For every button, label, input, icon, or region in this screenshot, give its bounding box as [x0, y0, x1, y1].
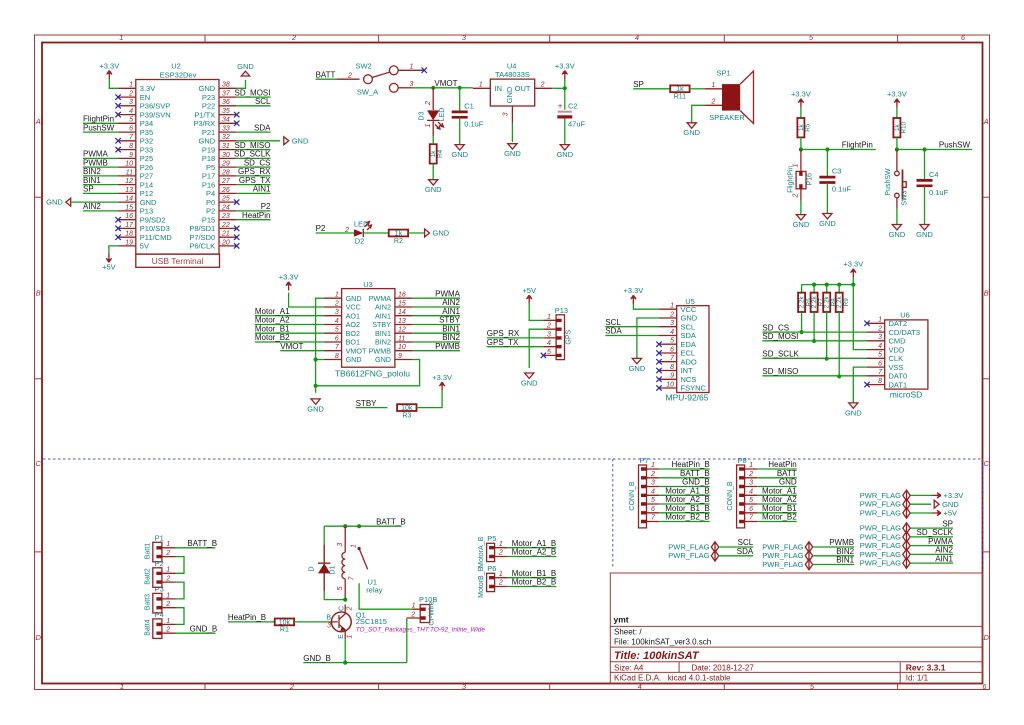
svg-text:5: 5: [749, 497, 753, 504]
resistor R7 2.2k: [811, 293, 825, 312]
capacitor C1: [452, 101, 484, 128]
wire net SD_MOSI: [237, 96, 271, 98]
wire resistor to net: [801, 312, 803, 332]
svg-text:+3.3V: +3.3V: [623, 286, 643, 295]
wire battery link: [176, 582, 185, 599]
svg-text:BATT_B: BATT_B: [680, 469, 710, 478]
svg-text:2: 2: [425, 101, 432, 106]
svg-text:AIN2: AIN2: [83, 202, 101, 211]
svg-text:P14: P14: [140, 180, 153, 189]
wire C2 to GND: [564, 119, 566, 145]
junction rail: [825, 283, 829, 287]
svg-text:Motor_B1_B: Motor_B1_B: [665, 504, 709, 513]
svg-text:SCL: SCL: [605, 318, 621, 327]
wire U3 pin8 gnd: [316, 359, 324, 361]
svg-text:D: D: [35, 633, 41, 642]
svg-text:BIN1: BIN1: [836, 556, 854, 565]
svg-text:0.1uF: 0.1uF: [832, 185, 852, 194]
PWR_FLAG PWMA: [860, 540, 910, 551]
svg-text:C: C: [35, 459, 41, 468]
svg-text:38: 38: [222, 82, 230, 89]
microSD U6: [867, 311, 928, 400]
connector P3 Batt3: [145, 585, 176, 613]
svg-text:22: 22: [221, 222, 230, 229]
svg-text:SD_MOSI: SD_MOSI: [234, 88, 270, 97]
svg-text:P25: P25: [140, 154, 153, 163]
svg-text:2: 2: [347, 606, 354, 611]
svg-text:P3: P3: [155, 585, 164, 594]
svg-text:1: 1: [166, 618, 170, 625]
connector P13 GPS: [543, 306, 572, 360]
wire net HeatPin: [757, 468, 796, 470]
svg-text:P33: P33: [140, 145, 153, 154]
svg-text:4: 4: [651, 489, 655, 496]
wire net SD_MISO: [762, 375, 867, 377]
svg-text:P16: P16: [806, 173, 813, 186]
svg-text:BATT_B: BATT_B: [187, 539, 217, 548]
svg-text:1: 1: [119, 33, 123, 42]
wire PushSW net: [897, 149, 972, 151]
junction pullup tap: [825, 357, 829, 361]
no-connect U2 right pin: [234, 112, 239, 117]
wire SP to R11: [633, 88, 670, 90]
svg-text:SD_SCLK: SD_SCLK: [917, 528, 954, 537]
svg-text:+3.3V: +3.3V: [791, 90, 811, 99]
svg-text:Motor_B1_B: Motor_B1_B: [512, 569, 556, 578]
svg-text:4: 4: [129, 108, 133, 115]
svg-text:HeatPin_B: HeatPin_B: [671, 460, 709, 469]
svg-text:BATT_B: BATT_B: [376, 517, 406, 526]
svg-text:0.1uF: 0.1uF: [464, 119, 484, 128]
power +5V: [932, 509, 957, 518]
svg-text:PWR_FLAG: PWR_FLAG: [860, 508, 901, 517]
svg-text:CONN_B: CONN_B: [727, 481, 734, 511]
wire net GPS_RX: [237, 175, 271, 177]
wire net HeatPin_B: [228, 621, 275, 623]
svg-text:15: 15: [125, 204, 133, 211]
svg-text:B: B: [36, 289, 41, 298]
svg-text:Id: 1/1: Id: 1/1: [906, 674, 929, 683]
svg-text:PWR_FLAG: PWR_FLAG: [762, 551, 803, 560]
svg-text:36: 36: [222, 99, 230, 106]
svg-text:P32: P32: [140, 137, 153, 146]
svg-text:Motor_B2: Motor_B2: [255, 333, 290, 342]
svg-text:PWR_FLAG: PWR_FLAG: [860, 559, 901, 568]
svg-text:NCS: NCS: [681, 375, 697, 384]
wire net GPS_TX: [487, 346, 544, 348]
svg-text:8: 8: [335, 353, 339, 360]
svg-text:2: 2: [748, 471, 753, 478]
svg-text:GPS_RX: GPS_RX: [238, 167, 271, 176]
svg-text:HeatPin: HeatPin: [768, 460, 796, 469]
svg-text:1: 1: [425, 123, 432, 127]
svg-text:R4: R4: [437, 149, 444, 158]
svg-text:Date: 2018-12-27: Date: 2018-12-27: [692, 663, 755, 672]
ground U2 pin38: [237, 62, 254, 76]
resistor R2: [389, 230, 408, 245]
wire net Motor_A1_B: [659, 494, 709, 496]
junction PushSW/SW3: [895, 147, 899, 151]
svg-text:Motor_A2_B: Motor_A2_B: [512, 548, 556, 557]
svg-text:10k: 10k: [279, 619, 291, 626]
svg-text:PushSW: PushSW: [83, 123, 115, 132]
wire U6 vss: [853, 367, 867, 402]
wire net Motor_B1: [255, 332, 324, 334]
wire D3 to R4 to GND: [432, 136, 434, 180]
svg-text:2: 2: [710, 99, 715, 106]
no-connect U2 pin 18: [115, 235, 120, 240]
connector P8 main bus: [727, 456, 757, 528]
no-connect U2 right pin: [234, 199, 239, 204]
svg-text:GPS_RX: GPS_RX: [487, 329, 520, 338]
svg-text:1: 1: [749, 462, 753, 469]
svg-text:32: 32: [222, 134, 230, 141]
svg-text:D: D: [983, 633, 989, 642]
wire net Motor_A1_B: [507, 547, 556, 549]
wire to C4: [924, 150, 926, 181]
wire resistor to net: [826, 312, 828, 359]
svg-text:C: C: [983, 459, 989, 468]
svg-text:GND: GND: [433, 229, 450, 238]
junction pullup tap: [812, 339, 816, 343]
power +3.3V: [887, 90, 907, 108]
svg-text:P19: P19: [202, 145, 215, 154]
wire PWR_FLAG SCL: [719, 546, 754, 548]
svg-text:P9/SD2: P9/SD2: [140, 215, 166, 224]
svg-text:SP: SP: [942, 519, 953, 528]
no-connect U2 pin 7: [115, 138, 120, 143]
wire D1 branch: [324, 526, 345, 599]
wire PWR_FLAG SP: [910, 527, 953, 529]
svg-text:PWMA: PWMA: [83, 150, 109, 159]
ground U4: [504, 144, 521, 158]
svg-text:GND: GND: [505, 86, 514, 103]
svg-text:Motor_B1: Motor_B1: [255, 324, 290, 333]
svg-text:BO1: BO1: [346, 338, 360, 347]
wire U5 gnd: [637, 318, 659, 358]
svg-text:P1: P1: [155, 534, 164, 543]
svg-text:3: 3: [503, 112, 510, 116]
resistor R11: [670, 85, 689, 100]
svg-text:14: 14: [398, 309, 406, 316]
svg-text:HeatPin: HeatPin: [242, 211, 270, 220]
svg-text:6: 6: [651, 506, 655, 513]
svg-text:1: 1: [129, 82, 133, 89]
svg-text:BIN1: BIN1: [83, 176, 101, 185]
svg-text:1: 1: [412, 603, 416, 610]
capacitor C3: [819, 167, 851, 194]
wire net BIN2: [83, 175, 118, 177]
wire net SD_SCLK: [762, 357, 867, 359]
svg-text:18: 18: [125, 231, 133, 238]
PWR_FLAG SP: [860, 523, 910, 534]
svg-text:3: 3: [670, 320, 674, 327]
svg-text:TA48033S: TA48033S: [495, 70, 530, 79]
svg-text:CD/DAT3: CD/DAT3: [889, 328, 921, 337]
wire net Motor_B1_B: [659, 512, 709, 514]
wire net Motor_A2: [757, 503, 796, 505]
svg-text:17: 17: [125, 222, 134, 229]
wire net SDA: [605, 335, 659, 337]
svg-text:GND: GND: [942, 500, 959, 509]
wire +5V to P13 pin1: [529, 304, 555, 321]
svg-text:EDA: EDA: [681, 340, 696, 349]
switch SW2: [337, 62, 425, 97]
svg-text:Motor_A1_B: Motor_A1_B: [665, 487, 709, 496]
ground C1: [451, 145, 468, 159]
svg-text:2: 2: [334, 300, 339, 307]
regulator U4 TA48033S: [473, 62, 552, 124]
svg-text:BIN1: BIN1: [442, 324, 460, 333]
svg-text:B: B: [326, 615, 331, 622]
svg-text:1: 1: [335, 292, 339, 299]
svg-text:VCC: VCC: [346, 303, 361, 312]
svg-text:+3.3V: +3.3V: [555, 61, 575, 70]
svg-text:4: 4: [878, 343, 882, 350]
svg-text:GPS_TX: GPS_TX: [239, 176, 271, 185]
wire PWR_FLAG GND: [910, 503, 931, 505]
junction rail: [837, 283, 841, 287]
svg-text:STBY: STBY: [372, 320, 391, 329]
LED D3: [419, 88, 447, 136]
svg-text:2: 2: [669, 311, 674, 318]
resistor R6 2.2k: [798, 293, 812, 312]
svg-text:GND: GND: [451, 150, 468, 159]
svg-text:SDA: SDA: [737, 547, 754, 556]
svg-text:PWR_FLAG: PWR_FLAG: [762, 542, 803, 551]
svg-text:Motor_B2: Motor_B2: [762, 513, 797, 522]
svg-text:CLK: CLK: [889, 354, 904, 363]
resistor R3: [397, 404, 416, 419]
svg-text:1: 1: [878, 317, 882, 324]
svg-text:GND: GND: [779, 478, 797, 487]
power +3.3V: [623, 286, 643, 304]
svg-text:0.1uF: 0.1uF: [929, 188, 949, 197]
svg-text:2: 2: [498, 580, 503, 587]
svg-text:16: 16: [398, 292, 406, 299]
wire PWR_FLAG BIN2: [813, 555, 854, 557]
wire PWR_FLAG +3.3V: [910, 494, 933, 496]
svg-text:GND: GND: [819, 219, 836, 228]
svg-text:P2: P2: [155, 559, 164, 568]
no-connect U5 pin 5: [656, 342, 661, 347]
PWR_FLAG AIN2: [860, 549, 910, 560]
svg-text:FlightPin: FlightPin: [842, 141, 873, 150]
svg-text:1k: 1k: [395, 230, 403, 237]
svg-text:1: 1: [347, 634, 354, 638]
svg-text:+3.3V: +3.3V: [887, 90, 907, 99]
title block: [610, 573, 982, 683]
ground SP1: [683, 123, 700, 137]
svg-text:+3.3V: +3.3V: [843, 260, 863, 269]
svg-text:6: 6: [129, 126, 133, 133]
wire net BATT_B: [659, 477, 709, 479]
ground U2 pin32: [284, 136, 309, 145]
svg-text:GND_B: GND_B: [682, 478, 710, 487]
wire rail to resistor: [801, 285, 803, 294]
svg-text:1: 1: [547, 314, 551, 321]
svg-text:BATT: BATT: [777, 469, 797, 478]
wire PWR_FLAG SD_SCLK: [910, 536, 953, 538]
svg-text:19: 19: [125, 239, 133, 246]
svg-text:Motor_B2_B: Motor_B2_B: [512, 578, 556, 587]
svg-text:Rev: 3.3.1: Rev: 3.3.1: [906, 662, 946, 672]
svg-text:GND: GND: [375, 355, 391, 364]
ground R2: [425, 229, 450, 238]
svg-text:GND: GND: [346, 355, 362, 364]
PWR_FLAG +5V: [860, 508, 910, 519]
svg-text:Motor_A1_B: Motor_A1_B: [512, 539, 556, 548]
svg-text:GND_B: GND_B: [190, 624, 218, 633]
svg-text:VDD: VDD: [889, 345, 905, 354]
svg-text:A: A: [35, 117, 41, 126]
junction FlightPin/C3: [825, 147, 829, 151]
wire net Motor_A1: [757, 494, 796, 496]
svg-text:P12: P12: [140, 189, 153, 198]
junction gnd rail: [314, 384, 318, 388]
wire net STBY: [413, 324, 460, 326]
junction coil/collector: [343, 598, 347, 602]
svg-text:DAT1: DAT1: [889, 380, 908, 389]
wire D2 to R2: [363, 232, 389, 234]
svg-text:BIN2: BIN2: [375, 338, 391, 347]
wire net Motor_B2_B: [507, 586, 556, 588]
wire P2 to D2: [316, 232, 354, 234]
svg-text:STBY: STBY: [356, 399, 378, 408]
svg-text:PWR_FLAG: PWR_FLAG: [860, 491, 901, 500]
wire to +3.3V: [564, 79, 566, 88]
svg-text:5: 5: [337, 586, 344, 590]
connector P1 Batt1: [145, 534, 176, 562]
svg-text:5: 5: [335, 327, 339, 334]
imu U5 MPU-92/65: [659, 297, 709, 402]
power +3.3V: [555, 61, 575, 79]
svg-text:8: 8: [670, 364, 674, 371]
svg-text:GND: GND: [425, 185, 442, 194]
svg-text:+5V: +5V: [522, 286, 536, 295]
wire gnd tail: [280, 140, 284, 142]
svg-text:P23: P23: [202, 93, 215, 102]
svg-text:PWMB: PWMB: [829, 538, 854, 547]
svg-text:6: 6: [878, 361, 882, 368]
svg-text:BIN2: BIN2: [83, 167, 101, 176]
svg-text:3: 3: [878, 334, 882, 341]
svg-text:R1: R1: [280, 627, 289, 634]
svg-text:P7: P7: [640, 456, 649, 465]
svg-text:P16: P16: [202, 180, 215, 189]
connector P7 backup bus: [629, 456, 659, 528]
relay U1 switch: [349, 526, 383, 594]
svg-text:AIN1: AIN1: [442, 307, 460, 316]
svg-text:10: 10: [666, 381, 674, 388]
svg-text:ADO: ADO: [681, 357, 697, 366]
svg-text:SD_MISO: SD_MISO: [234, 141, 270, 150]
svg-text:U3: U3: [363, 280, 373, 289]
svg-text:23: 23: [221, 213, 230, 220]
svg-text:R3: R3: [402, 412, 411, 419]
svg-text:4: 4: [335, 318, 339, 325]
svg-text:SP: SP: [633, 80, 644, 89]
junction rail: [812, 283, 816, 287]
svg-text:KiCad E.D.A. kicad 4.0.1-sta: KiCad E.D.A. kicad 4.0.1-stable: [614, 674, 731, 683]
svg-text:4: 4: [547, 340, 551, 347]
PWR_FLAG PWMB: [762, 542, 812, 553]
svg-text:P7/SD0: P7/SD0: [189, 233, 215, 242]
junction U3 gnd: [314, 357, 318, 361]
svg-text:20: 20: [221, 239, 230, 246]
wire U2 pin1 to +3.3V: [109, 79, 118, 88]
svg-text:SCL: SCL: [681, 322, 696, 331]
svg-text:SD_MOSI: SD_MOSI: [762, 332, 798, 341]
speaker SP1: [705, 69, 754, 124]
svg-text:VMOT: VMOT: [434, 79, 457, 88]
svg-text:Motor_B1: Motor_B1: [762, 504, 797, 513]
wire PWR_FLAG SDA: [719, 555, 754, 557]
svg-text:P11/CMD: P11/CMD: [140, 233, 173, 242]
wire C4 to GND: [924, 186, 926, 224]
svg-text:2: 2: [546, 323, 551, 330]
svg-text:GND: GND: [140, 198, 157, 207]
svg-text:MotorA_B: MotorA_B: [478, 536, 485, 567]
svg-text:6: 6: [335, 335, 339, 342]
svg-text:SP: SP: [83, 185, 94, 194]
svg-text:SPEAKER: SPEAKER: [709, 113, 745, 122]
svg-text:2: 2: [291, 33, 297, 42]
svg-text:21: 21: [221, 231, 230, 238]
svg-text:BIN1: BIN1: [375, 329, 391, 338]
wire net SCL: [605, 326, 659, 328]
svg-text:1: 1: [651, 462, 655, 469]
svg-text:P26: P26: [140, 163, 153, 172]
svg-text:3: 3: [409, 81, 413, 88]
svg-text:PWR_FLAG: PWR_FLAG: [860, 550, 901, 559]
svg-text:DAT0: DAT0: [889, 372, 908, 381]
svg-text:CMD: CMD: [889, 337, 907, 346]
wire Q1 emitter to GND_B: [344, 639, 346, 662]
svg-text:GND: GND: [521, 378, 538, 387]
svg-text:TO_SOT_Packages_THT:TO-92_Inli: TO_SOT_Packages_THT:TO-92_Inline_Wide: [356, 626, 486, 633]
U2 pins: [118, 88, 237, 246]
svg-text:SDA: SDA: [681, 331, 696, 340]
wire net SD_CS: [237, 166, 271, 168]
wire C3 to GND: [826, 183, 828, 214]
svg-text:P4: P4: [155, 610, 164, 619]
wire PWR_FLAG AIN1: [910, 562, 953, 564]
wire net SD_CS: [762, 331, 867, 333]
svg-text:P0: P0: [206, 198, 215, 207]
svg-text:34: 34: [222, 117, 230, 124]
svg-text:29: 29: [221, 161, 230, 168]
svg-text:2: 2: [877, 326, 882, 333]
svg-text:P8/SD1: P8/SD1: [189, 224, 215, 233]
svg-text:AIN2: AIN2: [442, 298, 460, 307]
svg-text:AIN2: AIN2: [375, 303, 391, 312]
wire net AIN1: [237, 192, 271, 194]
svg-text:P35: P35: [140, 128, 153, 137]
svg-text:Batt2: Batt2: [145, 568, 152, 584]
no-connect U2 pin 3: [115, 103, 120, 108]
wire R3 to +3.3V: [417, 391, 443, 408]
junction VMOT/C1: [458, 86, 462, 90]
svg-text:PWR_FLAG: PWR_FLAG: [860, 541, 901, 550]
svg-text:R2: R2: [394, 238, 403, 245]
svg-text:+3.3V: +3.3V: [944, 491, 964, 500]
svg-text:VMOT: VMOT: [346, 346, 367, 355]
svg-text:Motor_A1: Motor_A1: [255, 307, 290, 316]
svg-text:GND: GND: [292, 136, 309, 145]
svg-text:PWMB: PWMB: [83, 158, 108, 167]
power +5V: [102, 254, 116, 272]
